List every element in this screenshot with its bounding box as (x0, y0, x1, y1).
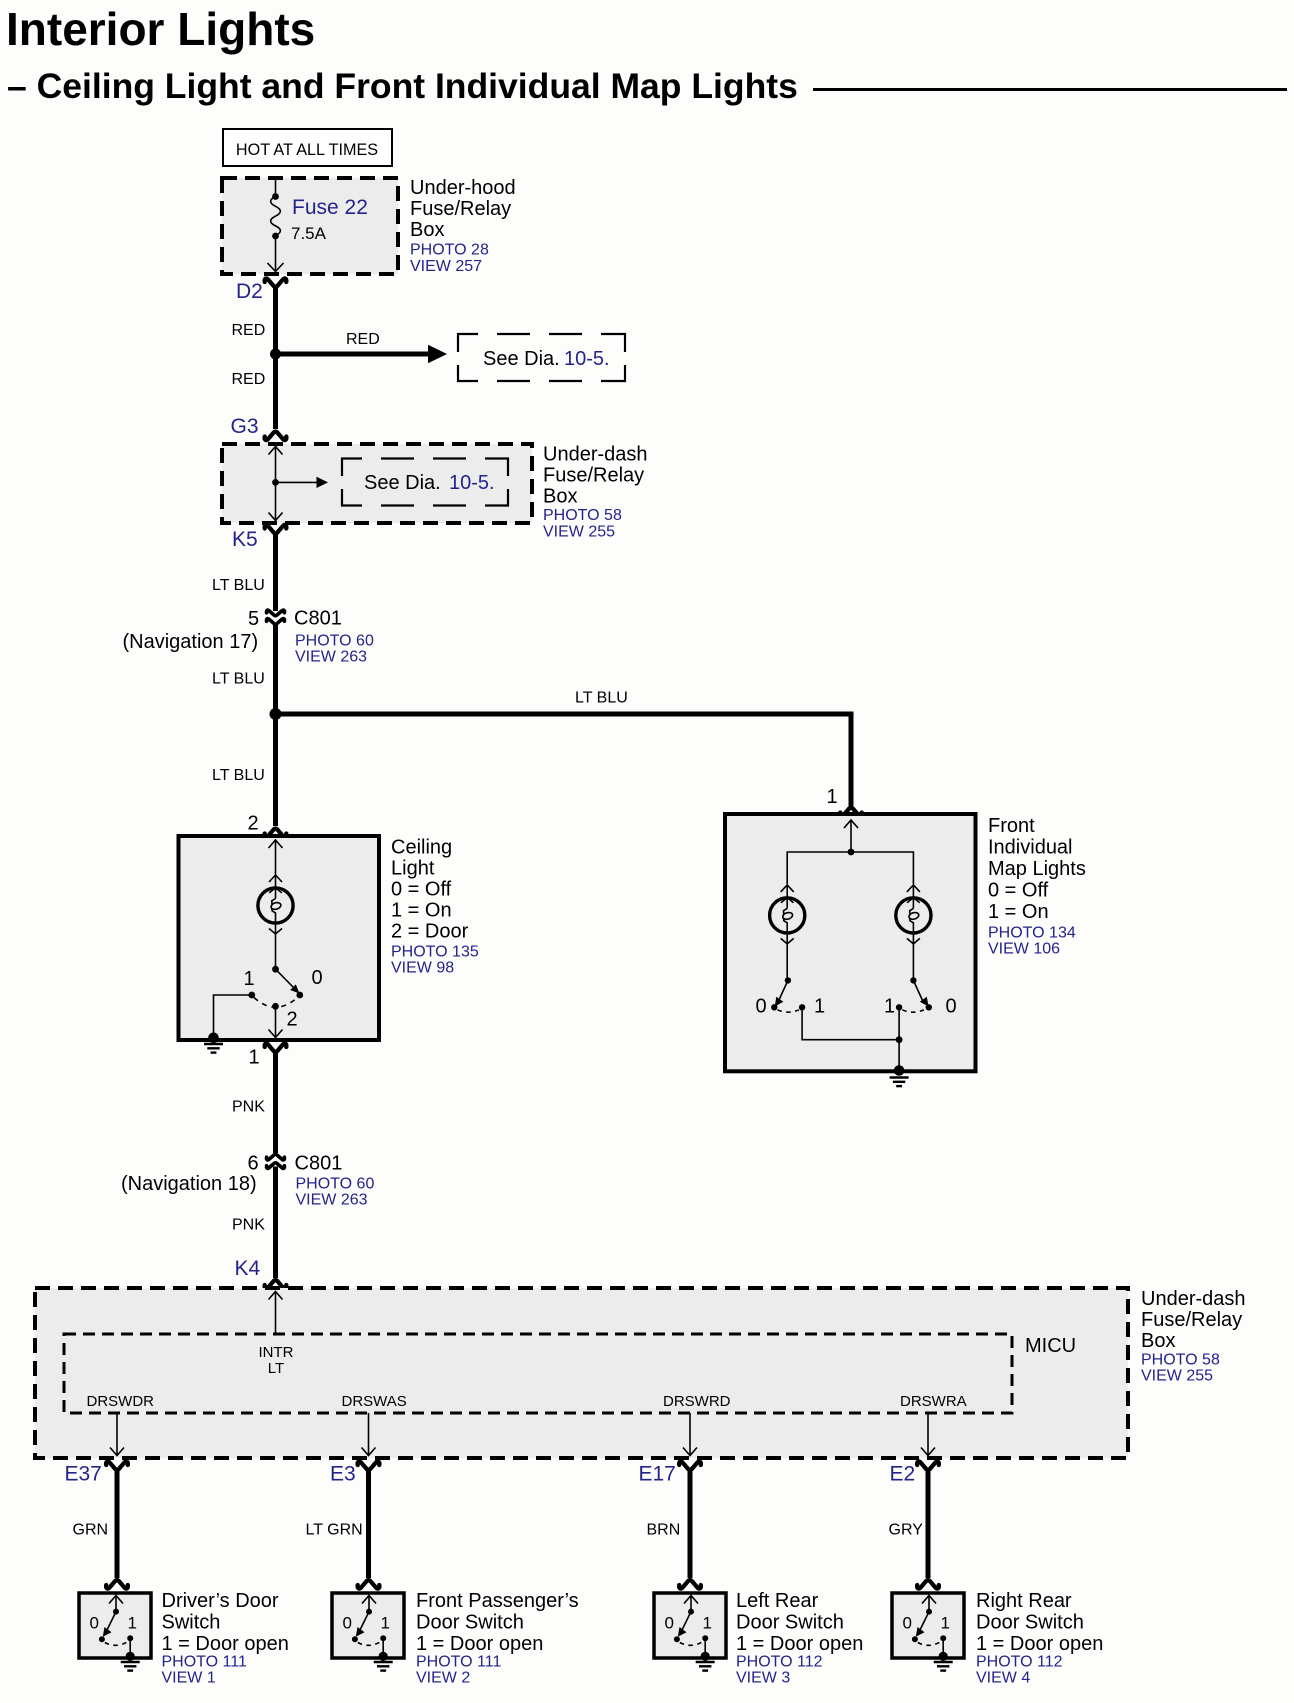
connector E37 (106, 1461, 128, 1469)
wire E17 to left rear door switch (688, 1470, 693, 1578)
label Under-hood Fuse/Relay Box (410, 177, 516, 275)
svg-text:HOT AT ALL TIMES: HOT AT ALL TIMES (236, 141, 378, 159)
svg-text:PHOTO 58: PHOTO 58 (1141, 1352, 1220, 1369)
svg-text:7.5A: 7.5A (291, 224, 327, 243)
svg-text:Front Passenger’s: Front Passenger’s (416, 1590, 579, 1612)
svg-text:PHOTO 60: PHOTO 60 (295, 633, 374, 650)
svg-text:2: 2 (287, 1009, 298, 1031)
label Driver's Door Switch (162, 1590, 289, 1687)
svg-text:1 = Door open: 1 = Door open (416, 1633, 543, 1655)
svg-text:K5: K5 (232, 528, 258, 551)
ground node dot (894, 1065, 905, 1076)
svg-text:VIEW 263: VIEW 263 (296, 1192, 368, 1209)
label Right Rear Door Switch (976, 1590, 1103, 1687)
ground driver door switch (121, 1662, 140, 1671)
svg-text:1: 1 (381, 1614, 390, 1633)
wire MICU to E37 (110, 1413, 124, 1456)
wire branch arrow to See Dia 10-5 (276, 352, 431, 357)
MICU box (64, 1334, 1012, 1413)
svg-text:0: 0 (756, 996, 767, 1018)
bulb map light left (770, 885, 805, 944)
svg-text:1: 1 (128, 1614, 137, 1633)
svg-text:0 = Off: 0 = Off (391, 879, 452, 901)
svg-text:E37: E37 (65, 1463, 102, 1486)
svg-text:Left Rear: Left Rear (736, 1590, 819, 1612)
svg-text:D2: D2 (236, 280, 263, 303)
wire right bulb to switch (912, 944, 914, 978)
svg-text:1 = Door open: 1 = Door open (162, 1633, 289, 1655)
svg-text:PHOTO 111: PHOTO 111 (416, 1654, 501, 1671)
svg-text:RED: RED (346, 331, 380, 348)
svg-text:Fuse/Relay: Fuse/Relay (410, 198, 511, 220)
svg-text:PHOTO 60: PHOTO 60 (296, 1176, 375, 1193)
connector E2 (917, 1461, 939, 1469)
svg-text:GRY: GRY (889, 1522, 924, 1539)
svg-text:(Navigation 17): (Navigation 17) (123, 631, 259, 653)
node See Dia. 10-5. (458, 334, 625, 381)
junction node (270, 708, 282, 720)
svg-text:1: 1 (703, 1614, 712, 1633)
svg-text:0: 0 (312, 967, 323, 989)
svg-text:DRSWAS: DRSWAS (342, 1393, 407, 1410)
wire K4 into MICU (269, 1292, 283, 1335)
svg-text:LT BLU: LT BLU (575, 690, 628, 707)
wire E2 to right rear door switch (926, 1470, 931, 1578)
connector driver door switch (106, 1580, 128, 1588)
svg-text:C801: C801 (295, 1153, 343, 1175)
rule line (813, 88, 1287, 91)
svg-text:LT BLU: LT BLU (212, 767, 265, 784)
ceiling light box (179, 836, 380, 1040)
svg-text:G3: G3 (231, 415, 259, 438)
svg-text:LT BLU: LT BLU (212, 577, 265, 594)
svg-text:RED: RED (232, 371, 266, 388)
svg-text:Door Switch: Door Switch (736, 1612, 844, 1634)
svg-text:Driver’s Door: Driver’s Door (162, 1590, 279, 1612)
wire pin1 to C801 (273, 1052, 278, 1153)
svg-text:E17: E17 (639, 1463, 676, 1486)
svg-text:PHOTO 111: PHOTO 111 (162, 1654, 247, 1671)
svg-text:1 = Door open: 1 = Door open (736, 1633, 863, 1655)
junction (270, 349, 281, 360)
switch right rear door (912, 1596, 946, 1656)
svg-text:VIEW 2: VIEW 2 (416, 1670, 470, 1687)
wire E3 to front passenger door switch (366, 1470, 371, 1578)
label Ceiling Light legend (391, 837, 479, 977)
ground node dot (701, 1652, 710, 1661)
svg-text:LT GRN: LT GRN (306, 1522, 363, 1539)
svg-text:PHOTO 112: PHOTO 112 (976, 1654, 1063, 1671)
under-dash fuse/relay box (upper) (222, 444, 532, 523)
ground node dot (126, 1652, 135, 1661)
wire into map lights (844, 820, 858, 852)
svg-text:0: 0 (343, 1614, 352, 1633)
connector left rear door switch (679, 1580, 701, 1588)
connector front passenger door switch (358, 1580, 380, 1588)
wire MICU to E3 (362, 1413, 376, 1456)
left rear door switch box (654, 1593, 726, 1658)
switch map left (771, 977, 805, 1012)
svg-text:Door Switch: Door Switch (416, 1612, 524, 1634)
svg-text:VIEW 263: VIEW 263 (295, 649, 367, 666)
bulb ceiling light (258, 875, 293, 934)
connector C801 pin 5 (267, 610, 285, 624)
label Front Individual Map Lights legend (988, 815, 1086, 958)
svg-text:1: 1 (941, 1614, 950, 1633)
svg-text:C801: C801 (294, 608, 342, 630)
svg-text:VIEW 4: VIEW 4 (976, 1670, 1030, 1687)
wire through box with arrows (269, 446, 283, 521)
svg-text:10-5.: 10-5. (564, 348, 610, 370)
svg-text:VIEW 3: VIEW 3 (736, 1670, 790, 1687)
wire into ceiling light (269, 840, 283, 875)
wire junction to G3 (273, 354, 278, 429)
svg-text:Right Rear: Right Rear (976, 1590, 1072, 1612)
wire MICU to E17 (683, 1413, 697, 1456)
connector E3 (358, 1461, 380, 1469)
svg-text:Box: Box (410, 219, 444, 241)
wire K5 to C801 (273, 534, 278, 612)
svg-text:VIEW 255: VIEW 255 (543, 524, 615, 541)
svg-text:1: 1 (244, 968, 255, 990)
wire bulb to switch (275, 934, 277, 967)
wire branch to map lights (276, 714, 852, 806)
svg-text:10-5.: 10-5. (449, 472, 495, 494)
driver door switch box (79, 1593, 151, 1658)
svg-text:0: 0 (903, 1614, 912, 1633)
switch driver door (99, 1596, 133, 1656)
svg-text:2 = Door: 2 = Door (391, 921, 469, 943)
svg-text:1 = On: 1 = On (391, 900, 452, 922)
connector ceiling light pin 1 (265, 1043, 287, 1051)
right rear door switch box (892, 1593, 964, 1658)
junction (896, 1036, 903, 1043)
ground ceiling light (204, 1044, 223, 1053)
under-dash fuse/relay box (lower) (35, 1288, 1128, 1458)
bulb map light right (896, 885, 931, 944)
wire MICU to E2 (921, 1413, 935, 1456)
svg-text:0 = Off: 0 = Off (988, 880, 1049, 902)
under-hood fuse/relay box (222, 178, 398, 274)
svg-text:PHOTO 135: PHOTO 135 (391, 944, 479, 961)
connector right rear door switch (917, 1580, 939, 1588)
svg-text:5: 5 (248, 608, 259, 630)
svg-text:LT BLU: LT BLU (212, 671, 265, 688)
svg-text:GRN: GRN (73, 1522, 109, 1539)
wire switch to pin 1 (269, 1006, 283, 1037)
svg-text:INTR: INTR (259, 1344, 294, 1361)
junction (272, 479, 279, 486)
svg-text:VIEW 255: VIEW 255 (1141, 1368, 1213, 1385)
svg-text:1: 1 (814, 996, 825, 1018)
label Front Passenger's Door Switch (416, 1590, 579, 1687)
svg-text:Interior Lights: Interior Lights (6, 3, 315, 55)
front passenger door switch box (332, 1593, 404, 1658)
connector ceiling light pin 2 (265, 829, 287, 837)
wire switches to ground (802, 1007, 899, 1069)
wire E37 to driver door switch (115, 1470, 120, 1578)
switch front passenger door (352, 1596, 386, 1656)
svg-text:1 = On: 1 = On (988, 901, 1049, 923)
wire D2 to junction (273, 287, 278, 354)
svg-text:See Dia.: See Dia. (483, 348, 560, 370)
svg-text:Door Switch: Door Switch (976, 1612, 1084, 1634)
svg-text:K4: K4 (235, 1257, 261, 1280)
svg-text:Under-hood: Under-hood (410, 177, 516, 199)
svg-text:Switch: Switch (162, 1612, 221, 1634)
svg-text:PHOTO 112: PHOTO 112 (736, 1654, 823, 1671)
svg-text:Front: Front (988, 815, 1035, 837)
wire C801 to K4 (273, 1167, 278, 1279)
svg-text:PNK: PNK (232, 1217, 265, 1234)
svg-text:Fuse 22: Fuse 22 (292, 196, 368, 219)
svg-text:Under-dash: Under-dash (543, 444, 648, 466)
svg-text:LT: LT (268, 1360, 284, 1377)
front individual map lights box (725, 814, 976, 1071)
connector map lights pin 1 (840, 808, 862, 816)
svg-text:Light: Light (391, 858, 435, 880)
svg-text:E2: E2 (890, 1463, 916, 1486)
svg-text:0: 0 (665, 1614, 674, 1633)
svg-text:RED: RED (232, 322, 266, 339)
svg-text:Ceiling: Ceiling (391, 837, 452, 859)
svg-text:0: 0 (946, 996, 957, 1018)
switch left rear door (674, 1596, 708, 1656)
svg-text:Fuse/Relay: Fuse/Relay (1141, 1309, 1242, 1331)
svg-text:2: 2 (248, 813, 259, 835)
wire to both bulbs (787, 852, 913, 884)
svg-text:BRN: BRN (647, 1522, 681, 1539)
connector E17 (679, 1461, 701, 1469)
wire C801 to junction (273, 625, 278, 714)
svg-text:(Navigation 18): (Navigation 18) (121, 1173, 257, 1195)
svg-text:1: 1 (884, 996, 895, 1018)
svg-text:MICU: MICU (1025, 1335, 1076, 1357)
junction (848, 849, 855, 856)
svg-text:Box: Box (1141, 1330, 1175, 1352)
connector C801 pin 6 (267, 1154, 285, 1168)
wire junction to ceiling light (273, 714, 278, 826)
label Under-dash Fuse/Relay Box (543, 444, 648, 541)
ground front passenger door switch (374, 1662, 393, 1671)
svg-text:0: 0 (90, 1614, 99, 1633)
label HOT AT ALL TIMES (223, 129, 392, 166)
label Left Rear Door Switch (736, 1590, 863, 1687)
svg-text:PHOTO 134: PHOTO 134 (988, 925, 1076, 942)
ground node dot (939, 1652, 948, 1661)
fuse Fuse 22 7.5A (268, 179, 284, 272)
svg-text:Map Lights: Map Lights (988, 858, 1086, 880)
svg-text:PNK: PNK (232, 1099, 265, 1116)
svg-text:1: 1 (249, 1047, 260, 1069)
wire switch pos1 to ground (214, 995, 252, 1036)
label Under-dash Fuse/Relay Box (1141, 1288, 1246, 1385)
ground right rear door switch (934, 1662, 953, 1671)
svg-text:Under-dash: Under-dash (1141, 1288, 1246, 1310)
ground node dot (379, 1652, 388, 1661)
arrow to inner See Dia (276, 481, 320, 483)
ground node dot (208, 1033, 219, 1044)
svg-text:Individual: Individual (988, 837, 1073, 859)
node See Dia. 10-5. (inner) (342, 459, 508, 506)
svg-text:See Dia.: See Dia. (364, 472, 441, 494)
switch map right (896, 977, 932, 1012)
svg-text:VIEW 257: VIEW 257 (410, 258, 482, 275)
svg-text:PHOTO 58: PHOTO 58 (543, 507, 622, 524)
ground left rear door switch (696, 1662, 715, 1671)
svg-text:VIEW 98: VIEW 98 (391, 960, 454, 977)
svg-text:1 = Door open: 1 = Door open (976, 1633, 1103, 1655)
svg-text:E3: E3 (330, 1463, 356, 1486)
svg-text:VIEW 1: VIEW 1 (162, 1670, 216, 1687)
svg-text:VIEW 106: VIEW 106 (988, 941, 1060, 958)
svg-text:DRSWDR: DRSWDR (87, 1393, 155, 1410)
svg-text:Fuse/Relay: Fuse/Relay (543, 465, 644, 487)
wire left bulb to switch (786, 944, 788, 978)
svg-text:6: 6 (248, 1153, 259, 1175)
svg-text:1: 1 (827, 786, 838, 808)
svg-text:Box: Box (543, 486, 577, 508)
ground map lights (890, 1078, 909, 1087)
svg-text:DRSWRA: DRSWRA (900, 1393, 967, 1410)
switch ceiling light (248, 966, 303, 1010)
svg-text:DRSWRD: DRSWRD (663, 1393, 731, 1410)
svg-text:– Ceiling Light and Front Indi: – Ceiling Light and Front Individual Map… (7, 66, 798, 106)
connector D2 (265, 278, 287, 286)
svg-text:PHOTO 28: PHOTO 28 (410, 242, 489, 259)
